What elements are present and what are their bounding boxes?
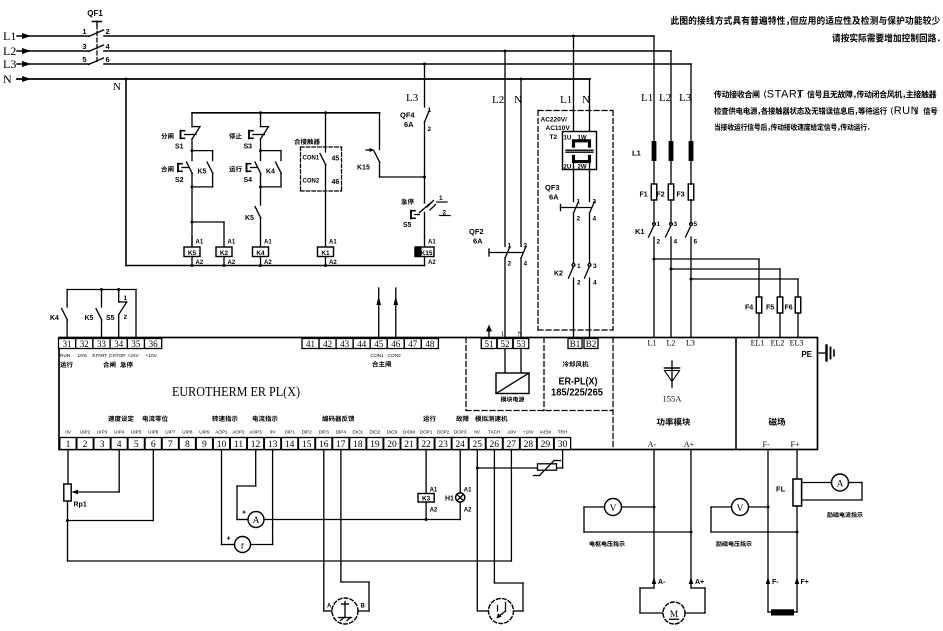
svg-text:4: 4 bbox=[593, 216, 597, 223]
relay coil K5 bbox=[191, 238, 193, 247]
svg-text:DIP2: DIP2 bbox=[302, 430, 313, 435]
svg-text:48: 48 bbox=[425, 339, 435, 349]
svg-text:K1: K1 bbox=[635, 227, 645, 236]
svg-text:CON2: CON2 bbox=[303, 179, 320, 185]
svg-text:A: A bbox=[253, 516, 260, 526]
svg-text:UIP4: UIP4 bbox=[114, 430, 125, 435]
wire stub to 45 with arrow bbox=[378, 288, 380, 339]
dashed enclosure fan supply bbox=[538, 110, 613, 112]
svg-text:18: 18 bbox=[353, 440, 363, 450]
svg-text:QF1: QF1 bbox=[87, 9, 103, 18]
wire L3 tap to QF4 bbox=[423, 63, 426, 66]
svg-text:DIP4: DIP4 bbox=[336, 430, 347, 435]
svg-text:CON2: CON2 bbox=[388, 353, 402, 359]
divider dashed module power bbox=[465, 338, 467, 411]
svg-text:RUN: RUN bbox=[894, 105, 919, 117]
svg-text:EL3: EL3 bbox=[790, 339, 804, 348]
ammeter A armature current bbox=[255, 450, 257, 487]
svg-text:S1: S1 bbox=[175, 144, 184, 151]
svg-text:A1: A1 bbox=[428, 240, 436, 246]
pushbutton S3 (stop NC) bbox=[260, 113, 262, 127]
svg-text:+: + bbox=[227, 536, 231, 543]
svg-text:3: 3 bbox=[674, 221, 678, 228]
wire N drop to control rail bbox=[125, 78, 128, 81]
svg-text:K5: K5 bbox=[188, 250, 197, 257]
svg-text:F-: F- bbox=[762, 440, 769, 449]
svg-text:L2: L2 bbox=[492, 94, 504, 106]
svg-text:1: 1 bbox=[657, 221, 661, 228]
svg-text:F6: F6 bbox=[785, 305, 793, 312]
svg-text:Rp1: Rp1 bbox=[74, 502, 87, 509]
svg-text:34: 34 bbox=[114, 339, 124, 349]
svg-text:AOP1: AOP1 bbox=[215, 430, 228, 435]
label power module (Chinese) bbox=[657, 418, 691, 426]
svg-text:F2: F2 bbox=[657, 192, 665, 199]
svg-text:F+: F+ bbox=[791, 440, 800, 449]
svg-text:1: 1 bbox=[508, 243, 512, 250]
svg-text:A1: A1 bbox=[228, 240, 236, 246]
svg-text:+: + bbox=[242, 510, 246, 517]
wire armature A- to motor bbox=[653, 450, 655, 589]
wire fuses to K1 bbox=[653, 200, 655, 223]
svg-text:UIP6: UIP6 bbox=[148, 430, 159, 435]
svg-text:0V: 0V bbox=[65, 430, 72, 435]
wire branch to coil K2 bbox=[192, 221, 224, 223]
svg-text:43: 43 bbox=[340, 339, 350, 349]
svg-text:A: A bbox=[327, 604, 332, 610]
svg-text:1: 1 bbox=[439, 195, 443, 202]
fuse F4 bbox=[756, 297, 762, 313]
meter tachometer r bbox=[221, 450, 223, 545]
svg-text:19: 19 bbox=[370, 440, 380, 450]
svg-text:4: 4 bbox=[674, 239, 678, 246]
svg-text:4: 4 bbox=[524, 261, 528, 268]
svg-text:5: 5 bbox=[694, 221, 698, 228]
svg-text:2U: 2U bbox=[564, 165, 572, 171]
wire meter common bbox=[264, 519, 460, 521]
svg-text:4: 4 bbox=[593, 280, 597, 287]
fuse F6 bbox=[795, 297, 801, 313]
svg-text:185/225/265: 185/225/265 bbox=[551, 388, 603, 399]
svg-text:2W: 2W bbox=[578, 165, 587, 171]
svg-text:53: 53 bbox=[517, 339, 527, 349]
svg-text:K2: K2 bbox=[554, 271, 563, 278]
svg-text:3: 3 bbox=[593, 199, 597, 206]
svg-text:L: L bbox=[502, 331, 506, 338]
svg-text:N: N bbox=[3, 72, 12, 86]
svg-text:L1: L1 bbox=[560, 94, 572, 106]
svg-text:AOP3: AOP3 bbox=[249, 430, 262, 435]
voltmeter V armature bbox=[605, 499, 622, 516]
relay contact K5 (START) bbox=[101, 290, 103, 308]
indicator lamp H1 bbox=[459, 450, 461, 494]
wire L3 phase drop bbox=[690, 64, 692, 141]
svg-text:1: 1 bbox=[428, 107, 432, 114]
svg-text:25: 25 bbox=[472, 440, 482, 450]
svg-text:5: 5 bbox=[82, 55, 86, 64]
svg-text:PE: PE bbox=[801, 350, 812, 359]
svg-text:41: 41 bbox=[306, 339, 315, 349]
svg-text:11: 11 bbox=[234, 440, 243, 450]
terminal row 1-30 bbox=[60, 438, 76, 450]
svg-text:EL1: EL1 bbox=[751, 339, 765, 348]
wire T2 secondary to QF3 bbox=[573, 162, 575, 202]
label field section (Chinese) bbox=[769, 418, 786, 426]
label cooling fan (Chinese) bbox=[563, 361, 589, 367]
wire N tap to transformer T2 bbox=[589, 79, 591, 141]
svg-text:20: 20 bbox=[387, 440, 397, 450]
terminal row 51-53 bbox=[481, 339, 497, 349]
note start sequence (Chinese) bbox=[714, 90, 766, 98]
relay contact K5 seal-in bbox=[192, 150, 213, 152]
svg-text:7: 7 bbox=[168, 440, 173, 450]
svg-text:10%: 10% bbox=[78, 353, 88, 359]
svg-text:0V: 0V bbox=[270, 430, 277, 435]
terminal row 41-48 bbox=[302, 339, 319, 349]
svg-text:K4: K4 bbox=[266, 169, 275, 176]
svg-text:44: 44 bbox=[357, 339, 367, 349]
svg-text:2: 2 bbox=[124, 314, 128, 321]
svg-text:EL2: EL2 bbox=[771, 339, 785, 348]
svg-text:F+: F+ bbox=[801, 579, 809, 586]
svg-text:QF4: QF4 bbox=[400, 111, 415, 120]
svg-text:DIO1: DIO1 bbox=[352, 430, 363, 435]
wire stub to 46 with arrow bbox=[395, 288, 397, 339]
svg-text:S4: S4 bbox=[244, 177, 253, 184]
svg-text:24: 24 bbox=[455, 440, 465, 450]
wire N tap to QF2 bbox=[520, 78, 523, 81]
svg-text:L1: L1 bbox=[648, 339, 657, 348]
svg-text:F-: F- bbox=[772, 579, 779, 586]
svg-text:2: 2 bbox=[657, 239, 661, 246]
svg-text:AOP2: AOP2 bbox=[232, 430, 245, 435]
svg-text:L1: L1 bbox=[3, 29, 16, 43]
svg-text:AC220V/: AC220V/ bbox=[541, 117, 568, 124]
fuse F1 bbox=[651, 184, 657, 200]
motor M bbox=[663, 602, 685, 624]
wire -10V rail to terminal 27 bbox=[68, 560, 512, 562]
wire QF3 to K2 contacts bbox=[573, 213, 575, 264]
svg-text:TRH: TRH bbox=[558, 430, 567, 435]
svg-text:45: 45 bbox=[332, 156, 340, 163]
label close main contactor (Chinese) bbox=[372, 361, 391, 367]
svg-text:A-: A- bbox=[648, 440, 657, 449]
svg-text:45: 45 bbox=[374, 339, 384, 349]
svg-text:B2: B2 bbox=[586, 339, 597, 349]
labels run close estop (Chinese) bbox=[60, 361, 73, 367]
terminal row 31-36 bbox=[59, 339, 76, 349]
svg-text:33: 33 bbox=[97, 339, 107, 349]
svg-text:1: 1 bbox=[577, 263, 581, 270]
wire L1 phase drop bbox=[653, 36, 655, 141]
encoder feedback transducer bbox=[323, 450, 325, 612]
emergency stop S5 bbox=[401, 198, 414, 204]
terminal 51 feed arrow bbox=[486, 325, 492, 332]
svg-text:UIP2: UIP2 bbox=[80, 430, 91, 435]
svg-text:M: M bbox=[670, 610, 679, 620]
svg-text:DIP1: DIP1 bbox=[285, 430, 296, 435]
svg-text:A1: A1 bbox=[464, 488, 472, 494]
svg-text:B1: B1 bbox=[570, 339, 581, 349]
wire pot to terminal 6 bbox=[68, 520, 154, 522]
fuse F3 bbox=[688, 184, 694, 200]
svg-text:L3: L3 bbox=[3, 57, 16, 71]
svg-text:N: N bbox=[113, 81, 121, 93]
svg-text:12: 12 bbox=[251, 440, 261, 450]
svg-text:QF3: QF3 bbox=[545, 183, 560, 192]
wire to coil K4 bbox=[260, 218, 262, 247]
svg-text:26: 26 bbox=[490, 440, 500, 450]
wire K2 to terminals B1 B2 bbox=[573, 278, 575, 339]
svg-text:6A: 6A bbox=[404, 120, 414, 129]
note wiring generality (Chinese) bbox=[671, 16, 940, 26]
svg-text:K15: K15 bbox=[357, 165, 370, 172]
field winding bbox=[771, 609, 794, 615]
svg-text:N: N bbox=[514, 94, 522, 106]
wire field tap phase 3 bbox=[690, 278, 693, 281]
svg-text:1: 1 bbox=[66, 440, 71, 450]
wire K1 to power module L1 L2 L3 bbox=[653, 237, 655, 339]
svg-text:1U: 1U bbox=[564, 136, 572, 142]
svg-text:29: 29 bbox=[541, 440, 551, 450]
svg-text:FL: FL bbox=[776, 485, 786, 494]
svg-text:N: N bbox=[582, 94, 590, 106]
svg-text:22: 22 bbox=[421, 440, 431, 450]
svg-text:K5: K5 bbox=[198, 169, 207, 176]
svg-text:K5: K5 bbox=[85, 315, 94, 322]
wire control feed bus bbox=[192, 112, 380, 114]
wire QF2 to terminals 52 53 bbox=[504, 258, 506, 339]
svg-text:DOP3: DOP3 bbox=[454, 430, 467, 435]
thyristor 155A bbox=[671, 361, 673, 368]
svg-text:TACH: TACH bbox=[488, 430, 500, 435]
divider dashed power module bbox=[612, 338, 614, 450]
pushbutton S4 (run NO) bbox=[260, 151, 262, 161]
contactor contacts K2 (fan) bbox=[572, 264, 575, 267]
svg-text:14: 14 bbox=[285, 440, 295, 450]
voltmeter V field bbox=[732, 499, 749, 516]
svg-text:3: 3 bbox=[82, 42, 86, 51]
svg-text:CON1: CON1 bbox=[303, 156, 320, 162]
svg-text:+10V: +10V bbox=[523, 430, 535, 435]
svg-text:28: 28 bbox=[524, 440, 534, 450]
svg-text:52: 52 bbox=[501, 339, 510, 349]
svg-text:S5: S5 bbox=[403, 222, 412, 229]
svg-text:6A: 6A bbox=[549, 193, 559, 202]
relay contact K15 bbox=[379, 113, 381, 150]
svg-text:DIP3: DIP3 bbox=[319, 430, 330, 435]
svg-text:32: 32 bbox=[80, 339, 89, 349]
svg-text:K4: K4 bbox=[50, 315, 59, 322]
pushbutton S2 (start NO) bbox=[191, 151, 193, 161]
svg-text:UIP5: UIP5 bbox=[131, 430, 142, 435]
wire field tap phase 1 bbox=[653, 258, 656, 261]
svg-text:155A: 155A bbox=[663, 394, 683, 404]
svg-text:23: 23 bbox=[438, 440, 448, 450]
svg-text:L3: L3 bbox=[406, 92, 419, 104]
svg-text:42: 42 bbox=[323, 339, 332, 349]
wire field F- bbox=[767, 450, 769, 613]
svg-text:8: 8 bbox=[185, 440, 190, 450]
wire to coil K1 bbox=[325, 165, 327, 247]
svg-text:T2: T2 bbox=[550, 134, 558, 141]
svg-text:DIO3: DIO3 bbox=[387, 430, 398, 435]
svg-text:F5: F5 bbox=[766, 305, 774, 312]
relay contact K5 series bbox=[260, 187, 262, 205]
wire fuses to EL1 EL2 EL3 bbox=[758, 313, 760, 339]
svg-text:ER-PL(X): ER-PL(X) bbox=[559, 377, 598, 388]
pushbutton S1 (stop NC) bbox=[191, 113, 193, 127]
svg-text:10: 10 bbox=[217, 440, 227, 450]
svg-text:START: START bbox=[92, 353, 107, 359]
label field voltage (Chinese) bbox=[716, 541, 752, 547]
svg-text:EUROTHERM ER PL(X): EUROTHERM ER PL(X) bbox=[172, 385, 300, 400]
potentiometer Rp1 bbox=[67, 450, 69, 485]
svg-text:UIP3: UIP3 bbox=[97, 430, 108, 435]
wire L2 tap to QF2 bbox=[504, 50, 507, 53]
tacho generator bbox=[477, 610, 488, 612]
relay contact K4 seal-in bbox=[261, 150, 282, 152]
svg-text:1: 1 bbox=[82, 27, 86, 36]
svg-text:+10V: +10V bbox=[146, 353, 158, 359]
svg-text:L1: L1 bbox=[632, 149, 641, 158]
svg-text:K2: K2 bbox=[220, 250, 229, 257]
svg-text:9: 9 bbox=[202, 440, 207, 450]
svg-text:DIOM: DIOM bbox=[403, 430, 415, 435]
svg-text:S2: S2 bbox=[175, 177, 184, 184]
svg-text:L3: L3 bbox=[686, 339, 695, 348]
svg-text:13: 13 bbox=[268, 440, 278, 450]
svg-text:2: 2 bbox=[428, 126, 432, 133]
svg-text:30: 30 bbox=[558, 440, 568, 450]
svg-text:1: 1 bbox=[124, 295, 128, 302]
svg-text:31: 31 bbox=[63, 339, 72, 349]
svg-text:1: 1 bbox=[577, 199, 581, 206]
svg-text:F1: F1 bbox=[640, 192, 648, 199]
svg-text:K4: K4 bbox=[256, 250, 265, 257]
svg-text:A1: A1 bbox=[196, 240, 204, 246]
svg-text:F3: F3 bbox=[677, 192, 685, 199]
svg-text:A+: A+ bbox=[684, 440, 695, 449]
wire +24V chain bus bbox=[67, 289, 136, 291]
svg-text:2: 2 bbox=[106, 27, 110, 36]
svg-text:DOP2: DOP2 bbox=[437, 430, 450, 435]
svg-text:3: 3 bbox=[593, 263, 597, 270]
wire L2 phase drop bbox=[670, 51, 672, 141]
svg-text:S5: S5 bbox=[106, 315, 115, 322]
drive block ER PL(X) outline bbox=[59, 338, 818, 450]
svg-text:2: 2 bbox=[83, 440, 88, 450]
wire to coil K5 bbox=[191, 187, 193, 222]
svg-text:DOP1: DOP1 bbox=[420, 430, 433, 435]
svg-text:47: 47 bbox=[408, 339, 418, 349]
label field current (Chinese) bbox=[827, 512, 863, 518]
svg-text:2: 2 bbox=[508, 261, 512, 268]
svg-text:UIP9: UIP9 bbox=[199, 430, 210, 435]
svg-text:51: 51 bbox=[485, 339, 494, 349]
svg-text:QF2: QF2 bbox=[469, 227, 484, 236]
svg-text:2: 2 bbox=[577, 216, 581, 223]
svg-text:V: V bbox=[737, 504, 744, 514]
svg-text:-10V: -10V bbox=[506, 430, 517, 435]
fuse F2 bbox=[668, 184, 674, 200]
svg-text:L2: L2 bbox=[3, 44, 16, 58]
svg-text:A: A bbox=[837, 479, 844, 489]
svg-text:6: 6 bbox=[694, 239, 698, 246]
ammeter A field current bbox=[832, 474, 849, 491]
svg-text:35: 35 bbox=[131, 339, 141, 349]
svg-text:CSTOP: CSTOP bbox=[109, 353, 125, 359]
svg-text:15: 15 bbox=[302, 440, 312, 450]
svg-text:S3: S3 bbox=[244, 144, 253, 151]
svg-text:START: START bbox=[767, 89, 805, 101]
group labels (Chinese) bbox=[108, 415, 134, 421]
svg-text:V: V bbox=[610, 504, 617, 514]
relay contact K4 (RUN) bbox=[66, 290, 68, 308]
svg-text:K15: K15 bbox=[421, 250, 433, 257]
svg-text:L2: L2 bbox=[667, 339, 676, 348]
svg-text:46: 46 bbox=[332, 179, 340, 186]
svg-text:0V: 0V bbox=[474, 430, 481, 435]
module power supply box bbox=[504, 349, 506, 374]
svg-text:A1: A1 bbox=[264, 240, 272, 246]
wire control return rail to N bbox=[126, 265, 425, 267]
svg-text:DIO2: DIO2 bbox=[370, 430, 381, 435]
svg-text:A2: A2 bbox=[464, 508, 472, 514]
svg-text:5: 5 bbox=[134, 440, 139, 450]
svg-text:36: 36 bbox=[149, 339, 159, 349]
thermistor TRH bbox=[476, 450, 478, 612]
divider solid field section bbox=[735, 338, 737, 450]
svg-text:CON1: CON1 bbox=[371, 353, 385, 359]
svg-text:A2: A2 bbox=[430, 508, 438, 514]
svg-text:A1: A1 bbox=[430, 488, 438, 494]
svg-text:6A: 6A bbox=[473, 237, 483, 246]
wire chain to +24V terminal 35 bbox=[135, 290, 137, 339]
svg-text:+24V: +24V bbox=[128, 353, 140, 359]
svg-text:21: 21 bbox=[404, 440, 414, 450]
svg-text:L3: L3 bbox=[679, 92, 692, 104]
svg-text:K5: K5 bbox=[245, 215, 254, 222]
svg-text:16: 16 bbox=[319, 440, 329, 450]
svg-text:L1: L1 bbox=[641, 92, 653, 104]
svg-text:3: 3 bbox=[524, 243, 528, 250]
svg-text:17: 17 bbox=[336, 440, 346, 450]
svg-text:A-: A- bbox=[658, 579, 666, 586]
svg-text:UIP7: UIP7 bbox=[165, 430, 176, 435]
svg-text:F4: F4 bbox=[745, 305, 753, 312]
svg-text:IAEM: IAEM bbox=[540, 430, 551, 435]
relay coil K15 bbox=[424, 238, 426, 247]
svg-text:L2: L2 bbox=[659, 92, 671, 104]
label armature voltage (Chinese) bbox=[590, 541, 625, 547]
svg-text:K1: K1 bbox=[321, 250, 330, 257]
svg-text:A2: A2 bbox=[428, 260, 436, 266]
svg-text:N: N bbox=[518, 331, 523, 338]
svg-text:RUN: RUN bbox=[60, 353, 71, 359]
svg-text:3: 3 bbox=[100, 440, 105, 450]
wire armature A+ to motor bbox=[690, 450, 692, 589]
svg-text:46: 46 bbox=[391, 339, 401, 349]
svg-text:UIP8: UIP8 bbox=[182, 430, 193, 435]
svg-text:27: 27 bbox=[507, 440, 517, 450]
wire field tap phase 2 bbox=[670, 268, 673, 271]
svg-text:H1: H1 bbox=[445, 496, 454, 503]
wire L1 tap to transformer T2 bbox=[572, 35, 575, 38]
svg-text:A+: A+ bbox=[695, 579, 704, 586]
svg-text:6: 6 bbox=[106, 55, 110, 64]
relay coil K3 bbox=[425, 450, 427, 494]
